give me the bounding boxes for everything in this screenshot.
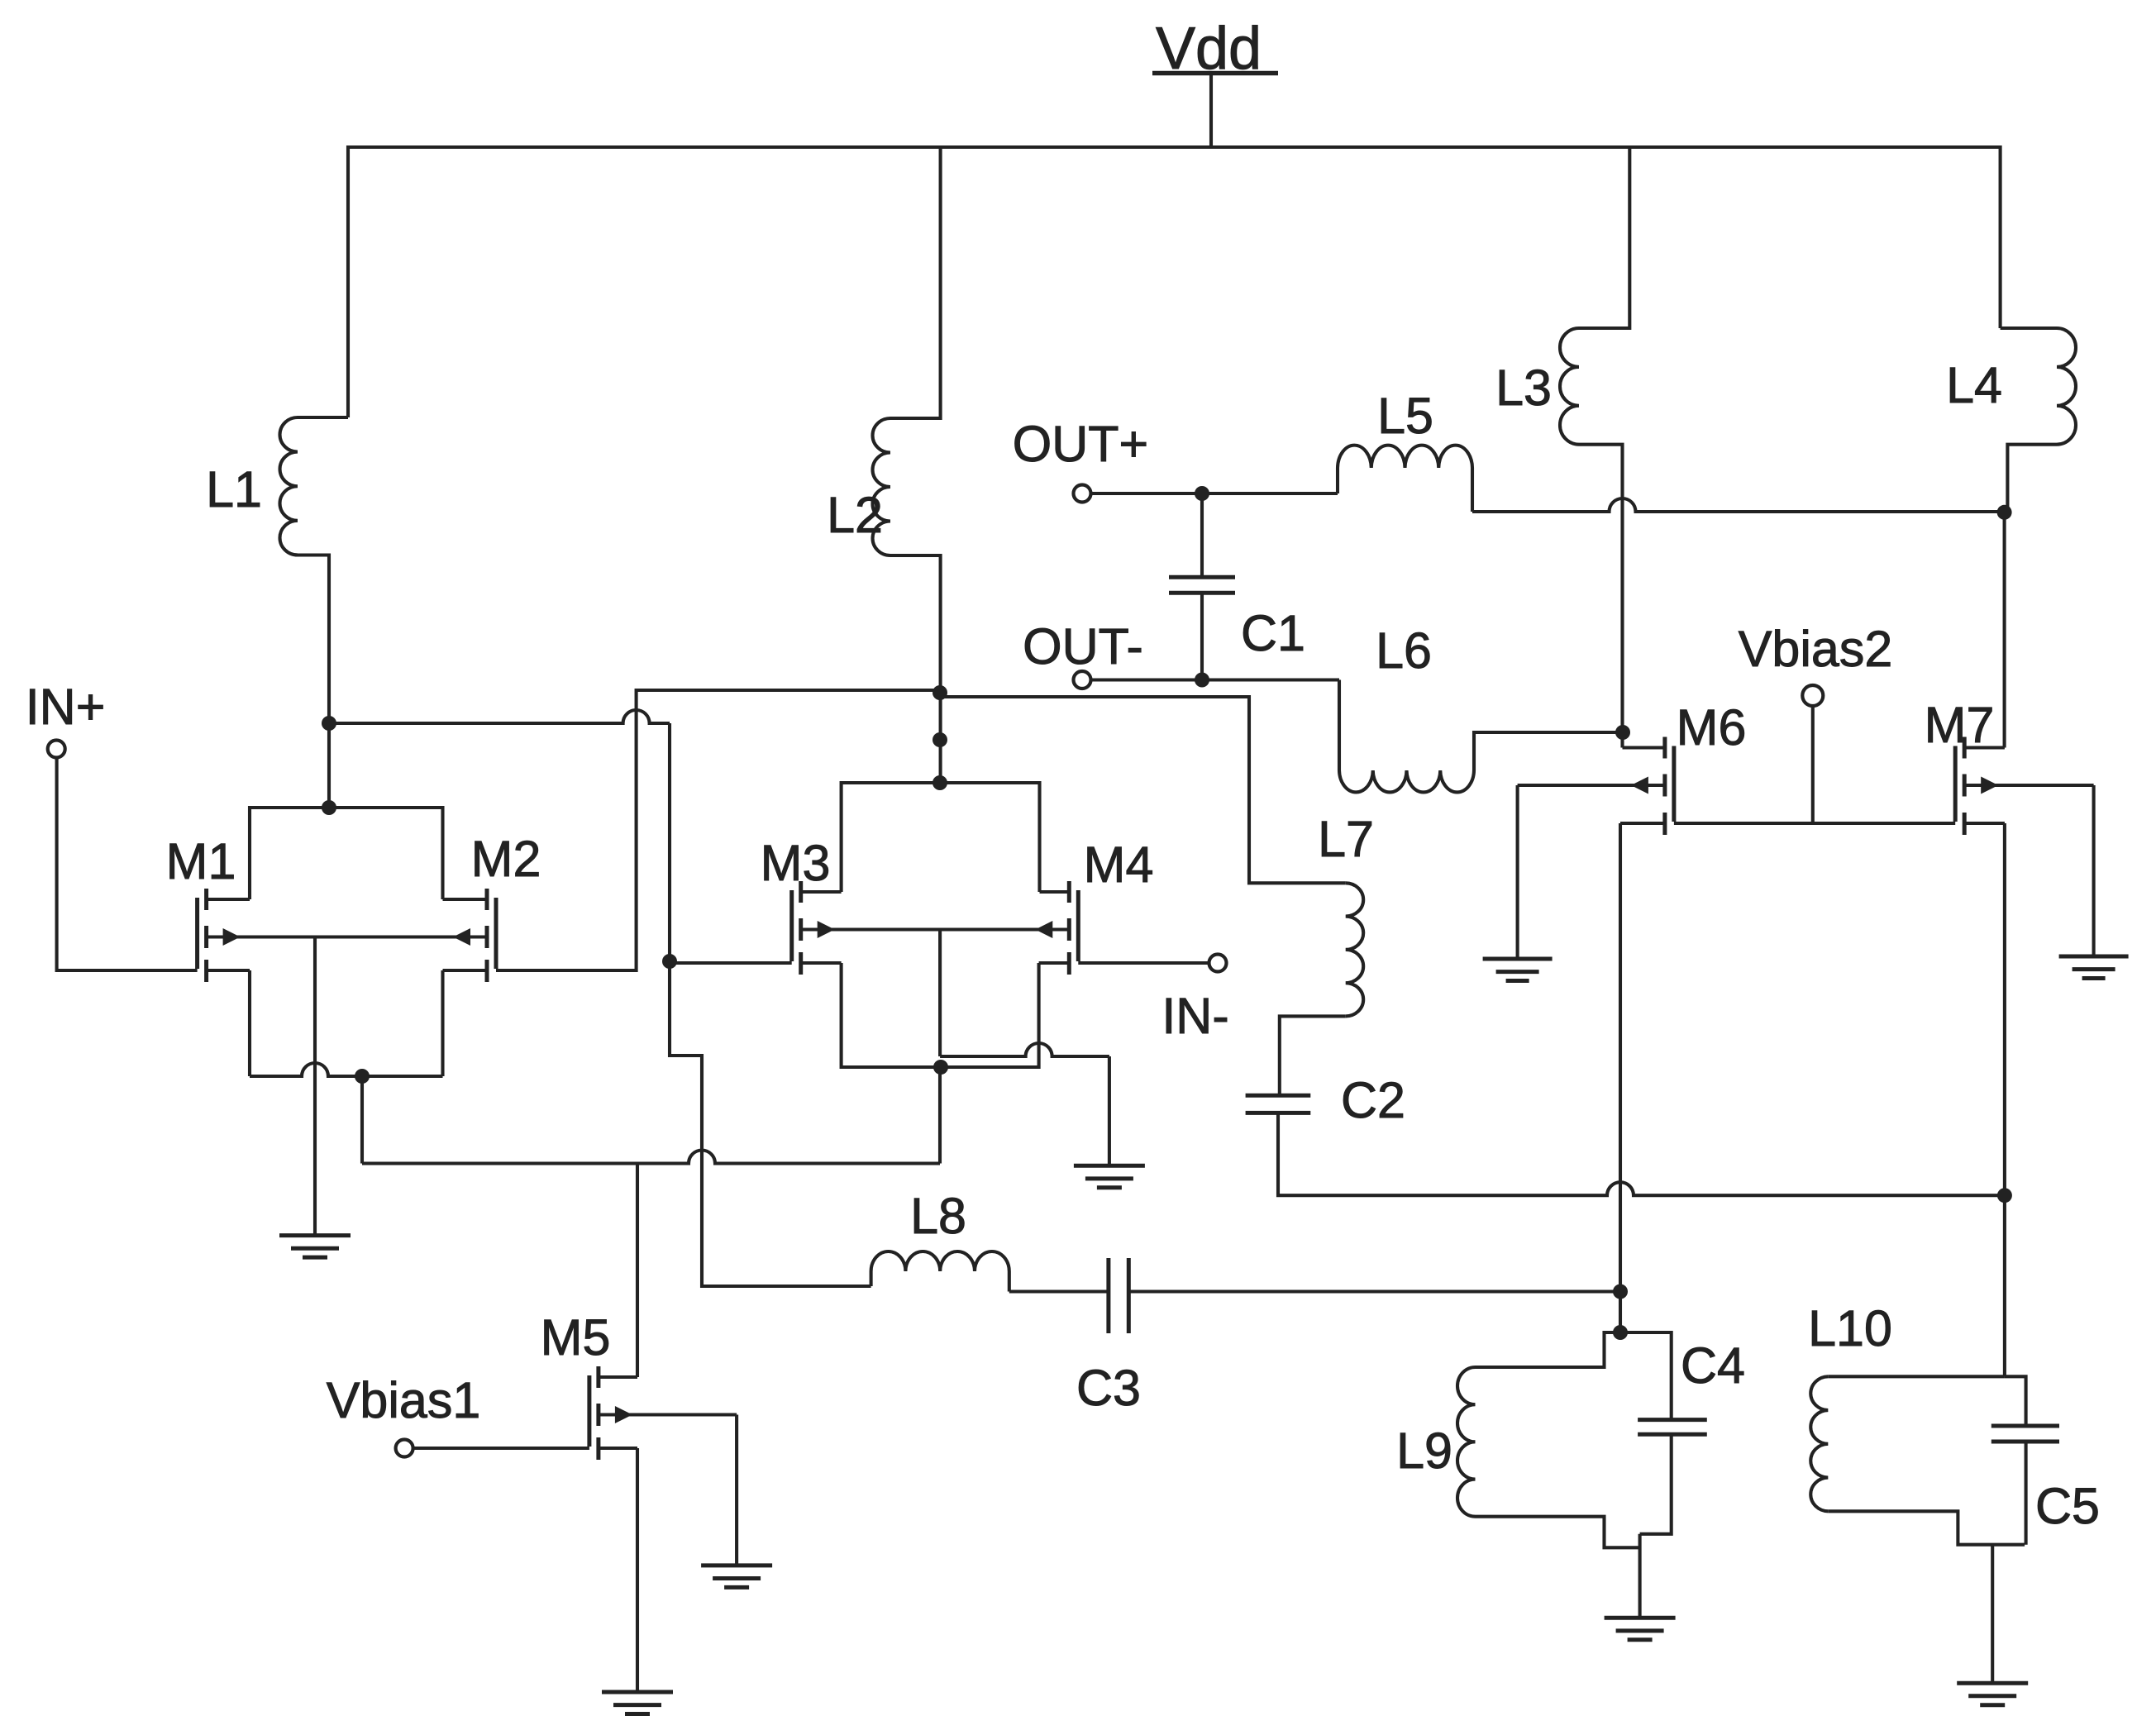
wire M6 M7 gate rail xyxy=(1674,822,1955,825)
label L10 xyxy=(1808,1300,1892,1356)
wire L6 right lead xyxy=(1474,732,1623,770)
transistor M4 xyxy=(1039,881,1079,975)
wire C4 bottom lead xyxy=(1640,1434,1672,1534)
wire C5 top lead xyxy=(2005,1376,2026,1426)
wire L7 bottom lead xyxy=(1280,1016,1346,1095)
label C4 xyxy=(1681,1337,1745,1394)
ground M6 bulk xyxy=(1483,959,1553,981)
inductor L7 xyxy=(1346,883,1363,1016)
wire tail line xyxy=(362,1151,940,1164)
label C1 xyxy=(1241,605,1305,661)
wire C5 bottom lead xyxy=(2025,1442,2028,1545)
label C2 xyxy=(1341,1072,1405,1128)
terminal Vbias2 xyxy=(1802,685,1823,706)
wire M5 drain riser xyxy=(636,1164,639,1378)
label L9 xyxy=(1396,1423,1452,1479)
label L6 xyxy=(1376,622,1432,679)
svg-text:M7: M7 xyxy=(1925,697,1995,753)
wire M6 source drop xyxy=(1619,823,1622,1332)
transistor M7 xyxy=(1955,737,2005,836)
label L2 xyxy=(827,487,883,543)
wire L8 left riser xyxy=(870,1271,873,1286)
junction dot L6 M6 branch xyxy=(1615,725,1630,740)
transistor M5 source arrow xyxy=(615,1406,632,1423)
node net-A / M3 gate junction dot xyxy=(662,954,677,969)
label C3 xyxy=(1076,1360,1141,1416)
wire L2 bottom lead xyxy=(890,555,941,783)
svg-text:C5: C5 xyxy=(2035,1478,2100,1534)
wire OUT+ line xyxy=(1091,492,1338,495)
wire M2 source drop xyxy=(441,970,444,1076)
svg-text:M1: M1 xyxy=(166,833,236,889)
wire M4 source drop xyxy=(941,963,1039,1067)
transistor M1 xyxy=(198,889,250,982)
label M2 xyxy=(471,831,541,887)
wire C4 top lead xyxy=(1620,1332,1672,1420)
inductor L4 xyxy=(2057,328,2076,445)
label M4 xyxy=(1084,837,1154,893)
terminal OUT- xyxy=(1074,671,1091,689)
svg-text:OUT-: OUT- xyxy=(1023,618,1143,674)
junction dot L2 mid xyxy=(933,732,947,747)
transistor M6 source arrow xyxy=(1631,777,1648,794)
capacitor C3 xyxy=(1109,1258,1128,1333)
label L4 xyxy=(1946,357,2002,413)
ground M7 bulk xyxy=(2059,956,2129,979)
svg-text:C4: C4 xyxy=(1681,1337,1745,1394)
terminal Vbias1 xyxy=(396,1440,413,1457)
transistor M1 source arrow xyxy=(223,928,241,946)
transistor M3 xyxy=(792,881,842,975)
transistor M2 source arrow xyxy=(453,928,470,946)
label IN- xyxy=(1161,988,1228,1044)
wire M5 source drop xyxy=(636,1448,639,1692)
transistor M4 source arrow xyxy=(1035,921,1052,938)
label M1 xyxy=(166,833,236,889)
junction dot C3 M6 xyxy=(1613,1285,1628,1299)
wire M6 bulk ground stem xyxy=(1516,785,1519,959)
svg-text:C3: C3 xyxy=(1076,1360,1141,1416)
label C5 xyxy=(2035,1478,2100,1534)
Vdd terminal bar xyxy=(1152,71,1278,76)
wire M4 gate to IN- xyxy=(1078,961,1209,965)
wire M5 gate lead xyxy=(413,1447,589,1450)
wire M2 gate riser xyxy=(496,690,940,970)
wire tail corner up xyxy=(938,1067,942,1164)
label L3 xyxy=(1495,360,1552,416)
inductor L8 xyxy=(871,1251,1009,1271)
wire M7 bulk ground stem xyxy=(2092,785,2096,956)
wire node A to M3-gate branch xyxy=(329,710,670,723)
transistor M3 source arrow xyxy=(818,921,835,938)
capacitor C1 xyxy=(1169,577,1235,593)
wire L1 bottom lead xyxy=(298,555,329,724)
wire C1 bottom lead xyxy=(1200,593,1204,679)
wire L3 riser xyxy=(1579,147,1629,328)
transistor M5 xyxy=(589,1366,637,1460)
wire Vbias2 stem xyxy=(1811,706,1815,823)
wire C3 to M6 source node xyxy=(1128,1289,1620,1293)
terminal OUT+ xyxy=(1074,485,1091,503)
svg-text:OUT+: OUT+ xyxy=(1013,416,1148,472)
label L1 xyxy=(206,461,262,517)
wire L8 right riser xyxy=(1008,1271,1011,1292)
svg-text:C2: C2 xyxy=(1341,1072,1405,1128)
wire tank top left jog xyxy=(1476,1332,1621,1367)
net label Vdd xyxy=(1156,16,1262,82)
wire L2 riser xyxy=(890,147,941,418)
wire M1 M2 drain rail xyxy=(250,808,443,899)
wire net A vertical drop xyxy=(668,723,671,961)
capacitor C4 xyxy=(1638,1420,1707,1435)
wire OUT- line xyxy=(1091,678,1340,681)
ground M1 M2 bulk xyxy=(279,1236,351,1258)
inductor L6 xyxy=(1339,770,1474,792)
svg-text:L3: L3 xyxy=(1495,360,1552,416)
label Vbias2 xyxy=(1739,621,1893,677)
wire M1 gate to IN+ xyxy=(57,757,198,970)
junction dot L4 bottom xyxy=(1997,505,2012,520)
junction dot M3 M4 source join xyxy=(933,1060,948,1075)
wire L5 left riser xyxy=(1336,468,1339,493)
label M6 xyxy=(1677,699,1747,755)
ground L9 C4 xyxy=(1605,1618,1676,1640)
ground M3 M4 xyxy=(1074,1165,1145,1188)
wire L4 top lead xyxy=(2001,327,2057,330)
svg-text:L9: L9 xyxy=(1396,1423,1452,1479)
svg-text:M3: M3 xyxy=(761,835,831,891)
wire net A to L8 xyxy=(670,961,871,1286)
svg-text:M6: M6 xyxy=(1677,699,1747,755)
wire L8 to C3 xyxy=(1009,1289,1109,1293)
label OUT+ xyxy=(1013,416,1148,472)
junction dot M1 M2 drain tie xyxy=(322,800,336,815)
inductor L3 xyxy=(1560,328,1579,445)
capacitor C5 xyxy=(1991,1426,2059,1442)
svg-text:L2: L2 xyxy=(827,487,883,543)
ground M5 bulk xyxy=(701,1566,772,1588)
inductor L2 xyxy=(873,418,891,555)
wire L6 left riser xyxy=(1338,680,1341,771)
terminal IN+ xyxy=(48,741,65,758)
junction dot source join xyxy=(355,1069,370,1084)
wire M5 bulk lead xyxy=(599,1413,737,1416)
svg-text:L5: L5 xyxy=(1377,388,1433,444)
junction dot tank L9 C4 xyxy=(1613,1325,1628,1340)
label L8 xyxy=(910,1188,966,1244)
ground L10 C5 xyxy=(1957,1683,2028,1705)
inductor L9 xyxy=(1457,1367,1475,1517)
label Vbias1 xyxy=(327,1372,481,1428)
svg-text:M2: M2 xyxy=(471,831,541,887)
junction dot M3 M4 drain tie xyxy=(933,775,947,790)
wire L4 node to M7 drain xyxy=(2003,512,2006,748)
wire bulk tail to ground xyxy=(940,1043,1109,1056)
svg-text:L10: L10 xyxy=(1808,1300,1892,1356)
svg-text:M4: M4 xyxy=(1084,837,1154,893)
wire L3 bottom lead xyxy=(1579,445,1623,748)
wire M1 M2 bulk line xyxy=(207,935,487,938)
label M5 xyxy=(541,1309,611,1366)
svg-text:IN-: IN- xyxy=(1161,988,1228,1044)
wire tank ground stem L9 C4 xyxy=(1638,1534,1642,1618)
svg-text:L6: L6 xyxy=(1376,622,1432,679)
wire M5 bulk ground stem xyxy=(735,1415,738,1566)
label OUT- xyxy=(1023,618,1143,674)
wire M3 M4 bulk line xyxy=(801,927,1070,931)
wire L10 top lead xyxy=(1828,1375,2005,1378)
wire C2 to M7 node xyxy=(1278,1113,2005,1195)
wire L4 bottom lead xyxy=(2007,445,2057,512)
svg-text:IN+: IN+ xyxy=(26,679,106,735)
svg-text:M5: M5 xyxy=(541,1309,611,1366)
wire L9 bottom lead xyxy=(1476,1517,1640,1548)
wire M3 source drop xyxy=(842,963,941,1067)
wire L5 to L4 line xyxy=(1472,498,2005,512)
wire Vdd top rail xyxy=(348,147,2001,417)
inductor L10 xyxy=(1810,1376,1828,1511)
wire C1 top lead xyxy=(1200,493,1204,577)
svg-text:L7: L7 xyxy=(1318,811,1374,867)
transistor M2 xyxy=(443,889,497,982)
wire M3 M4 drain rail xyxy=(842,783,1040,892)
svg-text:Vbias1: Vbias1 xyxy=(327,1372,481,1428)
transistor M6 xyxy=(1620,737,1674,836)
wire M1 source drop xyxy=(248,970,251,1076)
wire M3 M4 ground stem xyxy=(1108,1056,1111,1165)
label M3 xyxy=(761,835,831,891)
terminal IN- xyxy=(1209,955,1227,972)
label L7 xyxy=(1318,811,1374,867)
wire M3 M4 bulk tail xyxy=(938,930,942,1057)
ground M5 source xyxy=(602,1692,673,1714)
svg-text:C1: C1 xyxy=(1241,605,1305,661)
wire L10 bottom lead xyxy=(1828,1511,2025,1544)
transistor M7 source arrow xyxy=(1981,777,1998,794)
svg-text:L8: L8 xyxy=(910,1188,966,1244)
wire M6 bulk lead xyxy=(1518,784,1665,787)
wire Vdd stem xyxy=(1209,74,1213,148)
node A junction dot xyxy=(322,716,336,731)
junction dot OUT+ C1 xyxy=(1195,486,1209,501)
wire M1 M2 source join xyxy=(250,1063,443,1076)
svg-text:L1: L1 xyxy=(206,461,262,517)
svg-text:Vbias2: Vbias2 xyxy=(1739,621,1893,677)
capacitor C2 xyxy=(1246,1095,1311,1113)
wire M3 gate lead xyxy=(670,961,792,965)
wire M1 M2 bulk ground stem xyxy=(313,937,317,1236)
inductor L5 xyxy=(1338,446,1472,468)
svg-text:L4: L4 xyxy=(1946,357,2002,413)
wire source join to tail xyxy=(360,1076,364,1164)
junction dot L2 cross-coupling xyxy=(933,685,947,700)
junction dot OUT- C1 xyxy=(1195,673,1209,688)
wire L5 right riser xyxy=(1471,468,1474,512)
label IN+ xyxy=(26,679,106,735)
inductor L1 xyxy=(280,417,349,555)
label L5 xyxy=(1377,388,1433,444)
wire tank ground stem L10 C5 xyxy=(1991,1545,1994,1684)
wire node A to M1 M2 drains xyxy=(327,723,331,808)
wire M7 source drop xyxy=(2003,823,2006,1376)
label M7 xyxy=(1925,697,1995,753)
junction dot C2 line M7 xyxy=(1997,1188,2012,1203)
wire M7 bulk lead xyxy=(1964,784,2093,787)
wire cross-coupling to L7 xyxy=(940,697,1346,883)
